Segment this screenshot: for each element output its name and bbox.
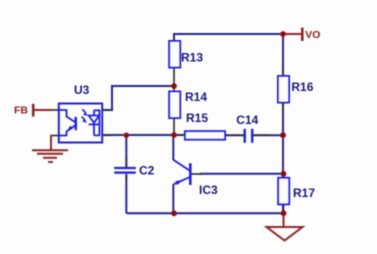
svg-text:FB: FB [14,105,28,117]
svg-text:R14: R14 [185,90,207,104]
svg-text:U3: U3 [74,83,90,97]
svg-text:C14: C14 [236,113,258,127]
svg-text:R16: R16 [291,80,313,94]
svg-text:IC3: IC3 [199,183,218,197]
svg-text:VO: VO [305,29,320,41]
svg-text:R15: R15 [186,111,208,125]
svg-text:C2: C2 [139,163,155,177]
svg-text:R13: R13 [181,51,203,65]
svg-text:R17: R17 [293,186,315,200]
